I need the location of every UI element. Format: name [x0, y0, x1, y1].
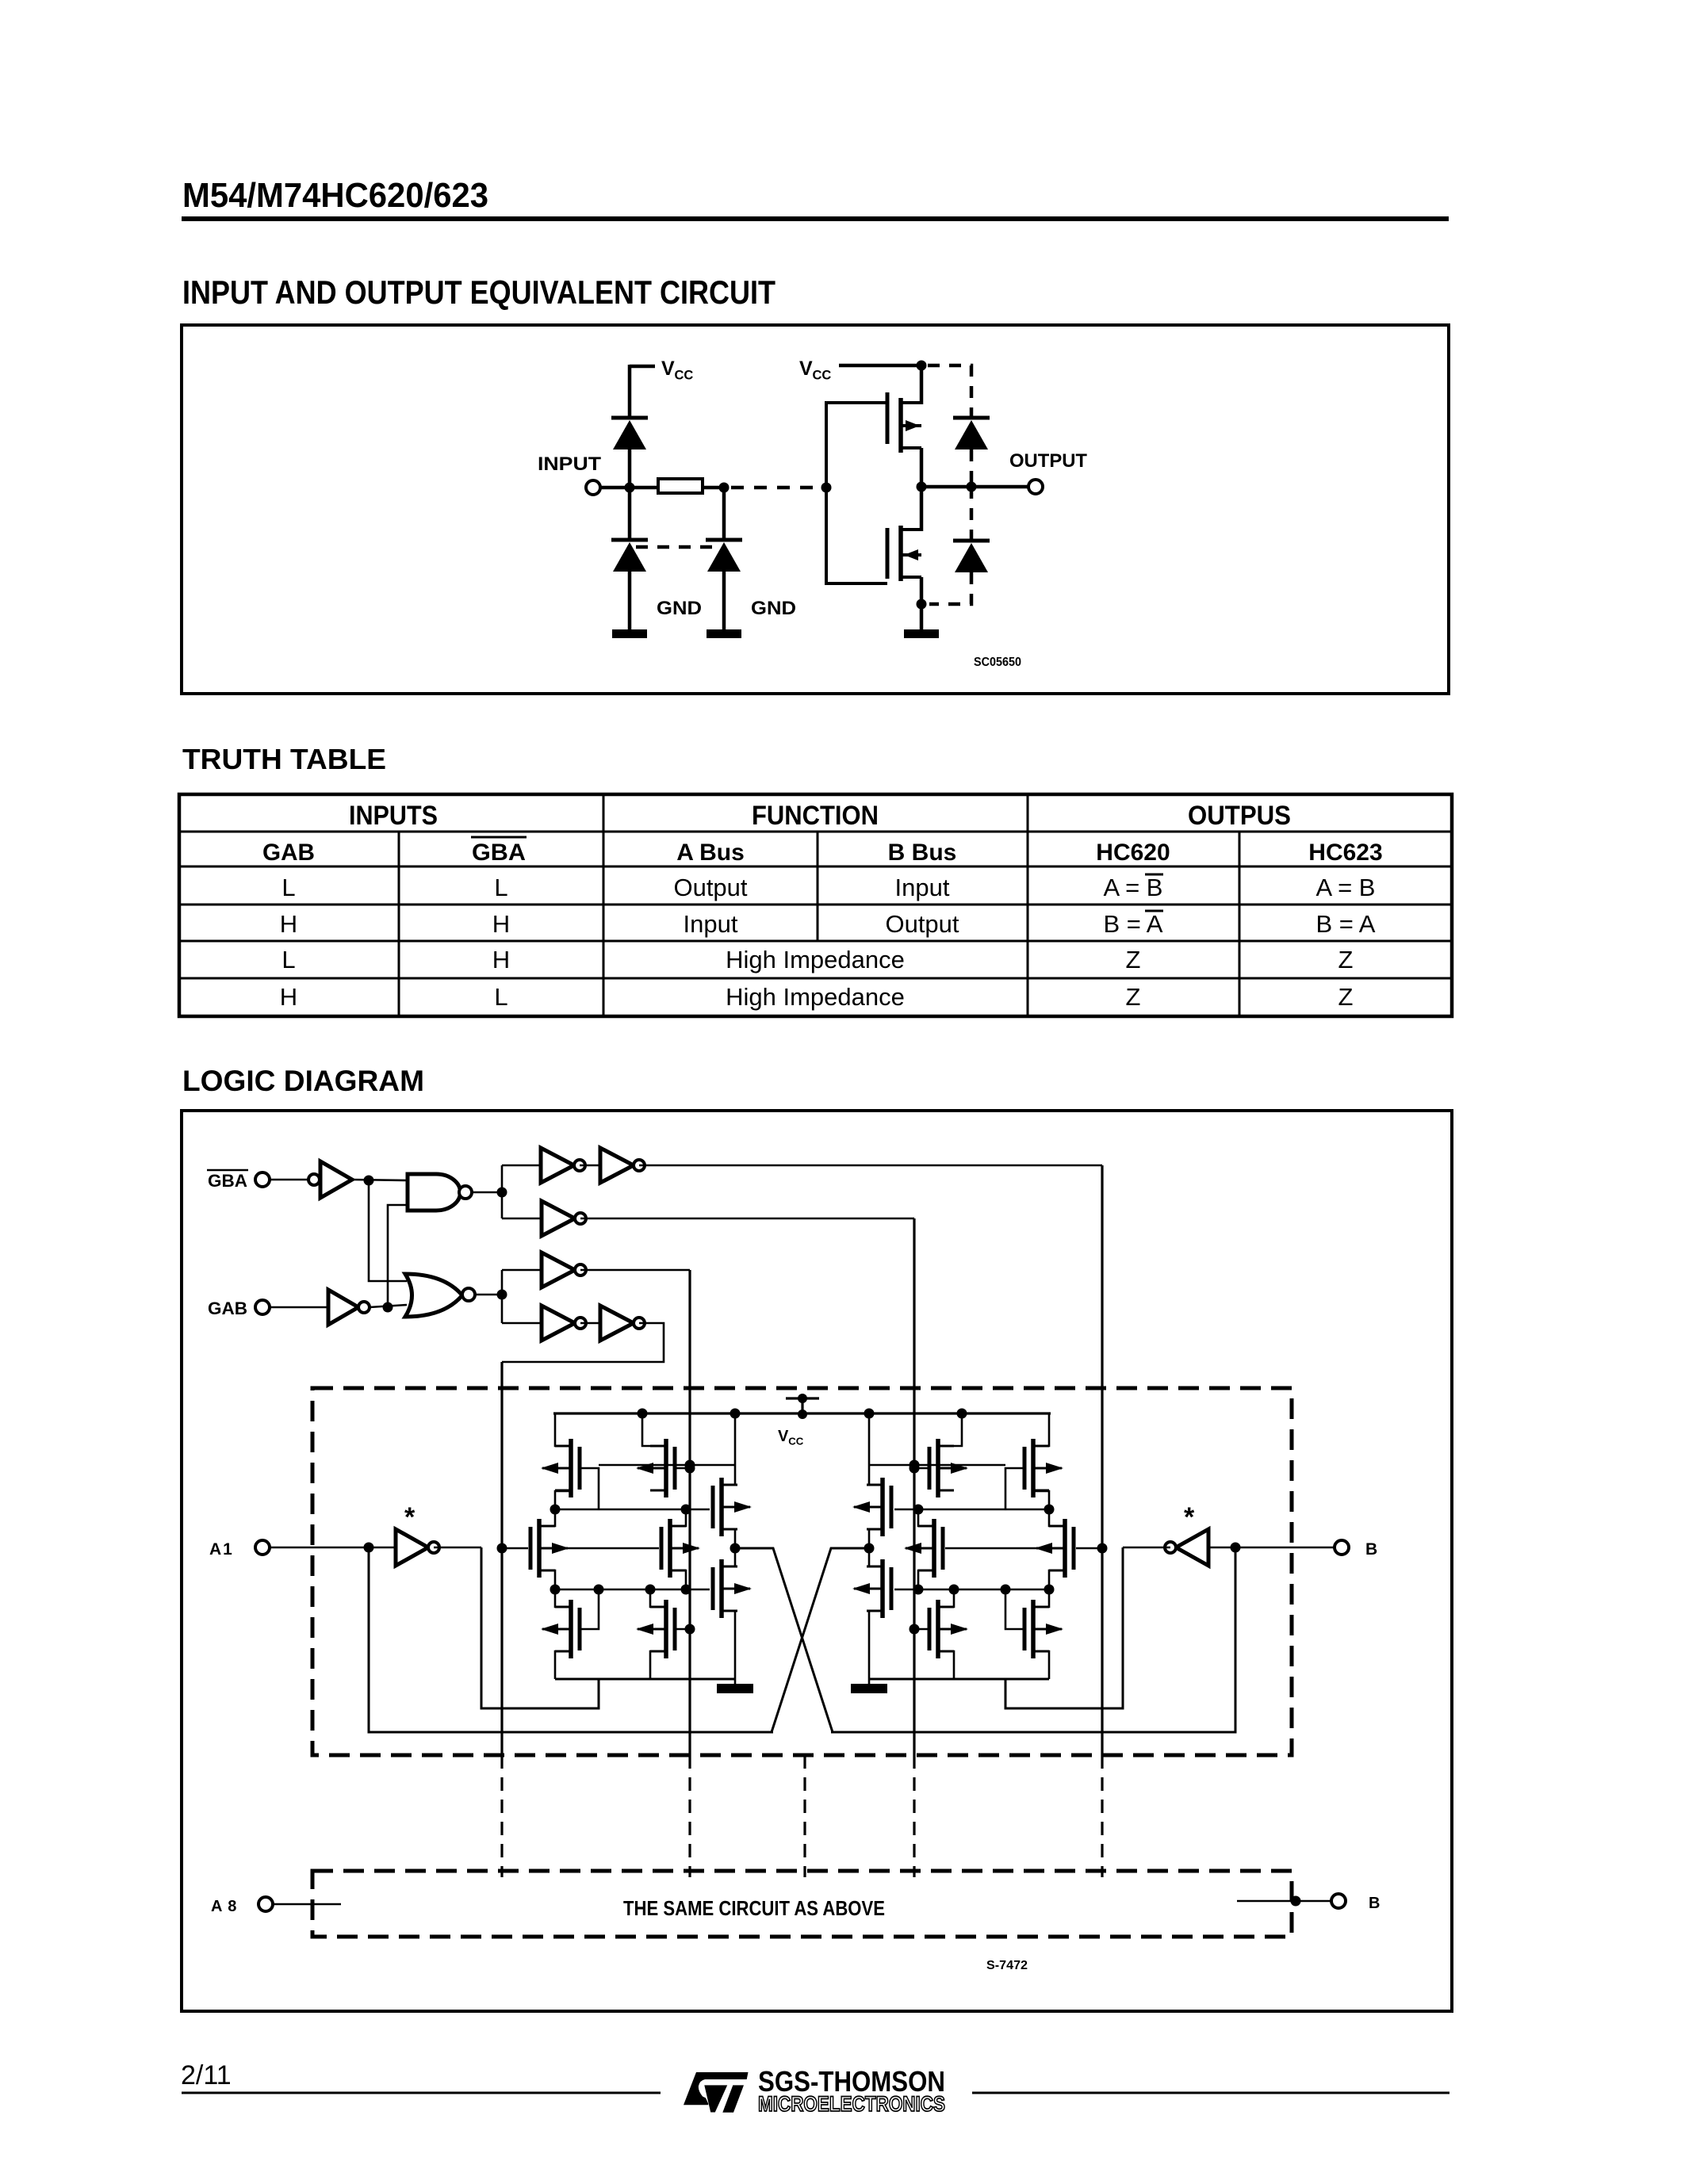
- transistor Q6A: [713, 1559, 752, 1618]
- OUTPUT label: [1009, 450, 1087, 472]
- wire Q3B source down: [869, 1529, 883, 1548]
- dashed drop 1: [500, 1755, 503, 1877]
- page number 2/11: [181, 2060, 232, 2090]
- svg-text:V: V: [799, 358, 813, 380]
- node gate input: [821, 483, 832, 493]
- wire GAB to buffer: [270, 1306, 328, 1309]
- wire U9 to U10: [580, 1322, 600, 1325]
- truth table grid: [179, 794, 1452, 1016]
- wire Q8B source down: [938, 1651, 954, 1679]
- inverter U1 (GBA): [308, 1161, 352, 1198]
- svg-text:M54/M74HC620/623: M54/M74HC620/623: [182, 176, 488, 215]
- svg-text:GBA: GBA: [472, 840, 526, 866]
- wire to buffer U8: [502, 1269, 542, 1272]
- output node: [917, 482, 927, 492]
- wire U12 out: [1123, 1547, 1170, 1549]
- svg-text:HC620: HC620: [1096, 840, 1170, 866]
- svg-text:A1: A1: [209, 1540, 234, 1559]
- wire U7 long right: [580, 1218, 914, 1220]
- wire Q7B source down: [1033, 1651, 1049, 1679]
- wire U6 long right: [639, 1165, 1102, 1167]
- wire N1 drain to output: [920, 487, 924, 531]
- svg-text:OUTPUT: OUTPUT: [1009, 450, 1087, 472]
- bus y2005 A: [555, 1589, 710, 1591]
- node NOR out: [497, 1290, 507, 1300]
- svg-text:MICROELECTRONICS: MICROELECTRONICS: [758, 2092, 945, 2116]
- svg-text:L: L: [281, 874, 295, 901]
- svg-text:GAB: GAB: [208, 1299, 247, 1318]
- svg-text:Input: Input: [684, 910, 738, 938]
- svg-text:B Bus: B Bus: [888, 840, 957, 866]
- wire Q4B drain up: [1049, 1509, 1065, 1526]
- wire Q5B drain up: [918, 1509, 934, 1526]
- node Vcc: [917, 361, 927, 371]
- wire Q4A source down: [539, 1570, 555, 1589]
- Vcc symbol: [786, 1394, 819, 1419]
- node A d3: [685, 1460, 695, 1471]
- svg-text:Input: Input: [895, 874, 950, 901]
- gnd bus B: [869, 1678, 1049, 1681]
- dashed wire between D2 D3: [636, 545, 718, 549]
- wire U3 to NOR: [370, 1305, 407, 1307]
- node B gate2: [910, 1463, 920, 1474]
- wire D3 to ground: [722, 572, 726, 631]
- svg-text:CC: CC: [813, 369, 832, 383]
- svg-text:GND: GND: [751, 598, 796, 619]
- wire B node down: [831, 1547, 1235, 1732]
- ground (right): [707, 629, 741, 638]
- wire Vcc to D1: [628, 365, 632, 418]
- asterisk A: [404, 1502, 416, 1532]
- svg-text:CC: CC: [675, 369, 694, 383]
- nmos N1: [887, 526, 921, 581]
- node B in: [1231, 1543, 1241, 1553]
- svg-text:B = A: B = A: [1104, 910, 1163, 938]
- ground A1: [717, 1684, 753, 1693]
- wire GBA to inverter: [270, 1179, 314, 1181]
- node input: [625, 483, 635, 493]
- transistor Q8B: [929, 1600, 968, 1658]
- node after resistor: [719, 483, 730, 493]
- node B g7: [1001, 1585, 1011, 1595]
- wire NAND out: [472, 1191, 502, 1194]
- SGS-Thomson logo mark: [684, 2072, 749, 2113]
- wire V5 to Q4B gate: [1076, 1547, 1102, 1550]
- wire Q2A drain to rail: [642, 1413, 666, 1446]
- wire Q1B source to bus: [1033, 1491, 1049, 1509]
- B8 label: [1369, 1895, 1380, 1912]
- GBA terminal: [255, 1172, 270, 1187]
- wire Q6A source to ground: [722, 1611, 735, 1684]
- title M54/M74HC620/623: [182, 176, 488, 215]
- wire Q8A gate to V2: [675, 1628, 690, 1631]
- node B g4: [1097, 1543, 1108, 1554]
- svg-text:H: H: [492, 910, 510, 938]
- wire A node down: [369, 1547, 773, 1732]
- wire U1 to NAND: [352, 1180, 409, 1180]
- output terminal: [1028, 480, 1043, 494]
- transistor Q5B: [904, 1519, 943, 1578]
- node A xs: [730, 1543, 741, 1554]
- resistor R1: [658, 479, 703, 493]
- node A mid1: [550, 1505, 561, 1515]
- bus y2005 B: [894, 1589, 1049, 1591]
- wire N2 up to NAND input: [388, 1205, 409, 1307]
- svg-text:H: H: [280, 983, 297, 1011]
- bus y1848 B: [869, 1464, 1005, 1467]
- node A gate2: [685, 1463, 695, 1474]
- wire Q2B drain to rail: [938, 1413, 962, 1446]
- node B mid1: [1044, 1505, 1055, 1515]
- dashed cell box: [312, 1388, 1292, 1755]
- truth table text: [262, 801, 1383, 1011]
- wire Q3B drain up: [869, 1413, 883, 1485]
- wire Q4B bulk to Q5B gate: [945, 1547, 1051, 1550]
- wire resistor to node: [703, 486, 724, 490]
- wire rail to Q1B drain: [1033, 1413, 1049, 1446]
- node rail A3: [730, 1409, 741, 1419]
- heading LOGIC DIAGRAM: [182, 1065, 424, 1097]
- terminal B: [1335, 1540, 1349, 1555]
- heading TRUTH TABLE: [182, 743, 386, 775]
- wire node to D2: [628, 488, 632, 540]
- svg-text:L: L: [281, 946, 295, 973]
- THE SAME CIRCUIT AS ABOVE label: [623, 1896, 885, 1920]
- transistor Q1B: [1024, 1439, 1063, 1497]
- nor U4: [405, 1274, 475, 1317]
- svg-text:TRUTH TABLE: TRUTH TABLE: [182, 743, 386, 775]
- svg-text:THE SAME CIRCUIT AS ABOVE: THE SAME CIRCUIT AS ABOVE: [623, 1896, 885, 1920]
- Vcc label (input cell): [661, 358, 693, 383]
- dashed wire to output cell: [731, 486, 821, 490]
- SC05650 label: [974, 656, 1021, 669]
- svg-text:Output: Output: [673, 874, 747, 901]
- transistor Q3A: [713, 1478, 752, 1536]
- transistor Q2A: [636, 1439, 675, 1497]
- wire Q3A drain up: [722, 1413, 735, 1485]
- Vcc stub wire (input cell): [630, 365, 655, 369]
- node A m2: [681, 1505, 691, 1515]
- wire B8: [1237, 1900, 1331, 1903]
- svg-text:INPUT AND OUTPUT EQUIVALENT CI: INPUT AND OUTPUT EQUIVALENT CIRCUIT: [182, 273, 775, 311]
- terminal A1: [255, 1540, 270, 1555]
- crossing wire B: [772, 1548, 867, 1732]
- wire NAND node up: [501, 1165, 504, 1192]
- svg-text:High Impedance: High Impedance: [726, 946, 905, 973]
- buffer U10: [600, 1306, 645, 1341]
- svg-text:GAB: GAB: [262, 840, 315, 866]
- wire Q5A source down: [670, 1570, 686, 1589]
- Vcc label (output cell): [799, 358, 831, 383]
- wire Q7A gate: [580, 1589, 599, 1629]
- dashed drop 3: [803, 1755, 806, 1877]
- wire Q6B drain up: [869, 1548, 883, 1566]
- dashed drop 5: [1101, 1755, 1103, 1877]
- diode D4: [953, 418, 990, 449]
- wire D2 to ground: [628, 572, 632, 631]
- wire output: [921, 485, 1028, 489]
- wire Q1A gate: [580, 1468, 599, 1509]
- SGS-THOMSON text: [758, 2065, 945, 2098]
- svg-text:L: L: [494, 874, 507, 901]
- svg-text:H: H: [280, 910, 297, 938]
- dashed drop 4: [913, 1755, 915, 1877]
- node rail B3: [864, 1409, 875, 1419]
- buffer U3 (GAB): [328, 1290, 370, 1325]
- transistor Q4B: [1035, 1519, 1074, 1578]
- wire U8 right: [580, 1269, 690, 1272]
- svg-text:A 8: A 8: [211, 1898, 237, 1915]
- wire N1 down to NOR input: [369, 1180, 407, 1281]
- transistor Q6B: [852, 1559, 891, 1618]
- ground B1: [851, 1684, 887, 1693]
- buffer U9: [542, 1306, 586, 1341]
- svg-text:2/11: 2/11: [181, 2060, 232, 2090]
- node A s5: [681, 1585, 691, 1595]
- transistor Q2B: [929, 1439, 968, 1497]
- transistor Q4A: [530, 1519, 569, 1578]
- node rail A2: [638, 1409, 648, 1419]
- S-7472 label: [986, 1959, 1028, 1972]
- svg-text:HC623: HC623: [1308, 840, 1382, 866]
- svg-text:High Impedance: High Impedance: [726, 983, 905, 1011]
- dashed wire D4 to output node: [970, 449, 974, 487]
- node A g7: [594, 1585, 604, 1595]
- svg-text:V: V: [661, 358, 675, 380]
- bus y1904 A: [555, 1509, 710, 1511]
- buffer U5: [541, 1148, 585, 1183]
- node A s4: [550, 1585, 561, 1595]
- node A in: [364, 1543, 374, 1553]
- wire V1 to Q4A gate: [502, 1547, 528, 1550]
- wire Q2B gate to V4: [914, 1467, 929, 1470]
- equivalent-circuit frame: [182, 325, 1449, 694]
- bus y1848 A: [599, 1464, 735, 1467]
- svg-text:Z: Z: [1126, 946, 1141, 973]
- logic-diagram frame: [182, 1111, 1452, 2011]
- wire U12 feedback: [1005, 1547, 1123, 1708]
- GND label right: [751, 598, 796, 619]
- node A g4: [497, 1543, 507, 1554]
- dashed drop 2: [688, 1755, 691, 1877]
- svg-text:V: V: [778, 1428, 789, 1445]
- wire Q7B drain up: [1033, 1589, 1049, 1607]
- node B m2: [913, 1505, 924, 1515]
- bus y1904 B: [894, 1509, 1049, 1511]
- wire Q6B source to ground: [869, 1611, 883, 1684]
- wire U10 right down left: [502, 1323, 664, 1362]
- wire Q4A bulk to Q5A gate: [553, 1547, 659, 1550]
- node B g8: [910, 1624, 920, 1635]
- svg-text:Z: Z: [1338, 983, 1354, 1011]
- svg-text:L: L: [494, 983, 507, 1011]
- wire A8: [273, 1903, 341, 1906]
- wire Vcc node down to P1 source: [920, 365, 924, 404]
- wire Q7A drain up: [555, 1589, 571, 1607]
- svg-text:H: H: [492, 946, 510, 973]
- B label: [1365, 1540, 1377, 1559]
- footer rule right: [972, 2092, 1449, 2094]
- wire U5 to U6: [580, 1165, 600, 1167]
- heading INPUT AND OUTPUT EQUIVALENT CIRCUIT: [182, 273, 775, 311]
- node on output line: [967, 482, 977, 492]
- dashed wire Vcc node to D4: [928, 365, 971, 418]
- asterisk B: [1184, 1502, 1195, 1532]
- svg-text:INPUT: INPUT: [538, 453, 601, 475]
- A8 label: [211, 1898, 237, 1915]
- dashed wire output node to D5: [970, 487, 974, 541]
- gate input line: [826, 403, 887, 583]
- wire Q8B gate to V4: [914, 1628, 929, 1631]
- transistor Q8A: [636, 1600, 675, 1658]
- wire NAND node down: [501, 1192, 504, 1218]
- GAB label: [208, 1299, 247, 1318]
- svg-text:B: B: [1365, 1540, 1377, 1559]
- wire node2 to D3: [722, 488, 726, 540]
- svg-text:GBA: GBA: [208, 1171, 247, 1191]
- GND label left: [657, 598, 702, 619]
- lower dashed box: [312, 1871, 1292, 1937]
- MICROELECTRONICS text: [758, 2092, 945, 2116]
- buffer U8: [542, 1253, 586, 1287]
- wire rail to Q1A drain: [555, 1413, 571, 1446]
- transistor Q7A: [541, 1600, 580, 1658]
- ground (output cell): [904, 629, 939, 638]
- wire Q1B gate: [1005, 1468, 1024, 1509]
- wire to buffer U9: [502, 1322, 542, 1325]
- node B s4: [1044, 1585, 1055, 1595]
- svg-text:GND: GND: [657, 598, 702, 619]
- diode D2: [611, 540, 648, 572]
- svg-text:CC: CC: [788, 1435, 804, 1447]
- inverter U11 (A side): [396, 1529, 439, 1566]
- svg-text:OUTPUS: OUTPUS: [1188, 801, 1291, 831]
- transistor Q7B: [1024, 1600, 1063, 1658]
- pmos P1: [887, 392, 921, 453]
- svg-text:SC05650: SC05650: [974, 656, 1021, 669]
- wire to buffer U5: [502, 1165, 541, 1167]
- wire down V4: [913, 1218, 915, 1755]
- wire to buffer U7: [502, 1218, 542, 1220]
- ground (left): [612, 629, 647, 638]
- wire down V2: [688, 1270, 691, 1755]
- wire NOR node down: [501, 1295, 504, 1323]
- wire NOR node up: [501, 1270, 504, 1295]
- wire U11 feedback: [481, 1547, 599, 1708]
- diode D3: [706, 540, 742, 572]
- node A d8: [645, 1585, 656, 1595]
- GBA label: [207, 1170, 248, 1191]
- wire Q7B gate: [1005, 1589, 1024, 1629]
- node rail B2: [957, 1409, 967, 1419]
- node B d8: [949, 1585, 959, 1595]
- wire D1 to input node: [628, 449, 632, 489]
- svg-text:*: *: [404, 1502, 416, 1532]
- title rule: [182, 216, 1449, 221]
- wire P1 drain to output: [920, 448, 924, 488]
- wire NOR out: [475, 1294, 502, 1296]
- wire input terminal to resistor: [600, 486, 658, 490]
- diode D1: [611, 418, 648, 449]
- svg-text:LOGIC DIAGRAM: LOGIC DIAGRAM: [182, 1065, 424, 1097]
- svg-text:A = B: A = B: [1104, 874, 1163, 901]
- svg-text:A = B: A = B: [1316, 874, 1376, 901]
- inverter U12 (B side): [1165, 1529, 1208, 1566]
- wire Q4A drain up: [539, 1509, 555, 1526]
- buffer U6: [600, 1148, 645, 1183]
- svg-text:Output: Output: [885, 910, 959, 938]
- terminal B8: [1331, 1894, 1346, 1908]
- wire Q8A drain up: [650, 1589, 666, 1607]
- node N1: [364, 1176, 374, 1186]
- wire N1 source down: [920, 577, 924, 631]
- nand U2: [408, 1174, 472, 1211]
- Vcc label (cell): [778, 1428, 804, 1447]
- node N1 source: [917, 599, 927, 610]
- svg-text:S-7472: S-7472: [986, 1959, 1028, 1972]
- wire Vcc label to node: [839, 364, 921, 368]
- GAB terminal: [255, 1300, 270, 1314]
- wire Q4B source down: [1049, 1570, 1065, 1589]
- node N2: [383, 1302, 393, 1313]
- node B8: [1291, 1896, 1301, 1907]
- node A g8: [685, 1624, 695, 1635]
- Vcc rail: [553, 1412, 1051, 1414]
- wire Q8A source down: [650, 1651, 666, 1679]
- svg-text:Z: Z: [1126, 983, 1141, 1011]
- svg-text:*: *: [1184, 1502, 1195, 1532]
- input terminal: [586, 480, 600, 495]
- INPUT label: [538, 453, 601, 475]
- node B xs: [864, 1543, 875, 1554]
- wire Q2A gate to V2: [675, 1467, 690, 1470]
- wire down V1: [500, 1362, 503, 1755]
- wire Q8B drain up: [938, 1589, 954, 1607]
- wire Q1A source to bus: [555, 1491, 571, 1509]
- node B s5: [913, 1585, 924, 1595]
- svg-text:FUNCTION: FUNCTION: [752, 801, 879, 831]
- wire Q3A source down: [722, 1529, 735, 1548]
- transistor Q3B: [852, 1478, 891, 1536]
- A1 label: [209, 1540, 234, 1559]
- transistor Q5A: [661, 1519, 700, 1578]
- wire Q6A drain up: [722, 1548, 735, 1566]
- footer rule left: [182, 2092, 661, 2094]
- gnd bus A: [555, 1678, 735, 1681]
- svg-text:B: B: [1369, 1895, 1380, 1912]
- buffer U7: [542, 1201, 586, 1236]
- node B d3: [910, 1460, 920, 1471]
- crossing wire A: [737, 1548, 833, 1732]
- wire Q5B source down: [918, 1570, 934, 1589]
- terminal A8: [258, 1897, 273, 1911]
- svg-text:B = A: B = A: [1316, 910, 1376, 938]
- wire U11 out: [434, 1547, 481, 1549]
- transistor Q1A: [541, 1439, 580, 1497]
- wire Q5A drain up: [670, 1509, 686, 1526]
- svg-text:Z: Z: [1338, 946, 1354, 973]
- wire down V5: [1101, 1165, 1103, 1755]
- wire B term to inverter: [1208, 1547, 1335, 1549]
- svg-text:A Bus: A Bus: [676, 840, 745, 866]
- wire A1 term to inverter: [270, 1547, 396, 1549]
- wire Q7A source down: [555, 1651, 571, 1679]
- dashed wire D5 to bottom node: [929, 572, 971, 604]
- svg-text:INPUTS: INPUTS: [349, 801, 438, 831]
- diode D5: [953, 541, 990, 572]
- node NAND out: [497, 1188, 507, 1198]
